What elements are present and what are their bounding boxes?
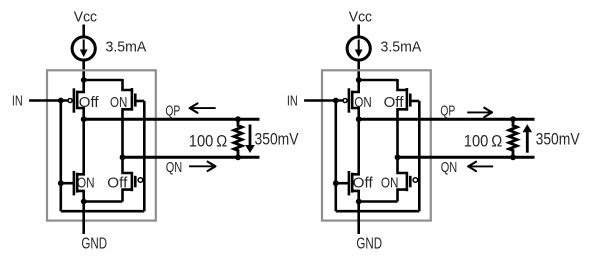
transistor M3 channel bar	[351, 173, 354, 193]
current source I1 3.5mA circle	[347, 37, 370, 60]
svg-text:QN: QN	[441, 159, 458, 176]
transistor M2 channel bar	[131, 88, 134, 111]
transistor M1 source lead to QP node	[352, 108, 359, 119]
resistor R bottom node dot	[235, 154, 241, 160]
current source arrow (down)	[358, 40, 360, 52]
gate rail wire (left gate line to right gate line)	[61, 210, 145, 213]
wire current source to node T	[357, 60, 360, 80]
node QN junction dot	[395, 154, 401, 160]
left gate vertical wire (IN to bottom gate rail)	[334, 101, 337, 212]
voltage arrow across resistor	[526, 130, 529, 152]
transistor M3 source lead to source rail	[77, 191, 84, 202]
QN current direction arrow	[469, 165, 493, 167]
transistor M4 gate bar	[134, 176, 137, 188]
transistor M3 drain lead (from QP node)	[352, 119, 359, 174]
node IN junction dot	[333, 98, 339, 104]
wire QN output line	[123, 156, 260, 159]
svg-text:100 Ω: 100 Ω	[464, 132, 503, 150]
svg-text:350mV: 350mV	[536, 130, 580, 148]
node T junction dot	[356, 77, 362, 83]
transistor M4 channel bar	[406, 172, 409, 191]
svg-text:Off: Off	[384, 95, 405, 111]
transistor M1 top-left "Off" gate bubble	[68, 99, 72, 103]
current source I1 3.5mA circle	[72, 37, 95, 60]
transistor M4 source lead to source rail	[123, 190, 132, 202]
transistor M3 bottom-left "ON" gate tap dot	[58, 180, 64, 186]
transistor M4 gate bubble	[413, 178, 418, 183]
transistor M4 bottom-right "Off" drain lead (from QN node)	[123, 157, 132, 173]
node GND tap junction dot	[81, 199, 87, 205]
top rail wire node T to right branch	[83, 79, 123, 82]
transistor M4 channel bar	[131, 172, 134, 191]
wire GND stub	[82, 202, 85, 235]
svg-text:IN: IN	[12, 93, 23, 110]
node QN junction dot	[120, 154, 126, 160]
transistor M2 gate bar	[409, 94, 412, 107]
gate rail wire (left gate line to right gate line)	[336, 210, 420, 213]
svg-text:QN: QN	[166, 159, 183, 176]
transistor M4 gate bar	[409, 176, 412, 188]
transistor M4 gate bubble	[138, 178, 143, 183]
svg-text:QP: QP	[440, 102, 455, 119]
wire IN lead	[29, 99, 67, 102]
right gate vertical wire (gates to bottom gate rail)	[418, 101, 421, 211]
wire QP output line	[84, 118, 260, 121]
resistor R 100 Ohm top node dot	[235, 116, 241, 122]
transistor M3 channel bar	[76, 173, 79, 193]
transistor M1 top-left "ON" gate bubble	[343, 99, 347, 103]
transistor M2 gate lead	[135, 100, 144, 103]
transistor M1 drain lead (from node T)	[352, 80, 359, 92]
svg-text:Vcc: Vcc	[74, 10, 98, 26]
svg-text:ON: ON	[77, 175, 95, 191]
wire IN lead	[304, 99, 342, 102]
transistor M2 gate lead	[410, 100, 419, 103]
transistor M4 bottom-right "ON" drain lead (from QN node)	[398, 157, 407, 173]
wire Vcc to current source	[357, 25, 360, 38]
wire GND stub	[357, 202, 360, 235]
svg-text:GND: GND	[81, 236, 107, 253]
transistor M4 source lead to source rail	[398, 190, 407, 202]
svg-text:3.5mA: 3.5mA	[381, 40, 422, 56]
svg-text:ON: ON	[354, 95, 371, 111]
current source arrow (down)	[83, 40, 85, 52]
svg-text:Off: Off	[353, 175, 374, 191]
svg-text:100 Ω: 100 Ω	[189, 132, 228, 150]
transistor M1 gate bar	[348, 88, 351, 112]
svg-text:Vcc: Vcc	[349, 10, 373, 26]
transistor M2 source lead crossing QP to QN node	[123, 109, 132, 157]
svg-text:ON: ON	[110, 95, 127, 111]
boundary box (driver IC)	[322, 70, 431, 220]
node QP junction dot	[356, 116, 362, 122]
svg-text:Off: Off	[79, 95, 100, 111]
resistor R 100 Ohm zigzag body	[509, 119, 517, 157]
transistor M1 channel bar	[351, 91, 354, 110]
svg-text:ON: ON	[381, 175, 399, 191]
transistor M1 drain lead (from node T)	[77, 80, 84, 92]
node QP junction dot	[81, 116, 87, 122]
wire current source to node T	[82, 60, 85, 80]
source rail wire (sources to GND tap)	[359, 200, 398, 203]
svg-text:Off: Off	[107, 175, 128, 191]
wire QN output line	[398, 156, 535, 159]
transistor M2 channel bar	[406, 88, 409, 111]
QN current direction arrow	[189, 165, 215, 167]
transistor M3 source lead to source rail	[352, 191, 359, 202]
left gate vertical wire (IN to bottom gate rail)	[59, 101, 62, 212]
resistor R bottom node dot	[510, 154, 516, 160]
transistor M2 top-right "ON" drain lead (from top rail)	[123, 79, 132, 90]
svg-text:350mV: 350mV	[255, 130, 299, 148]
svg-text:GND: GND	[356, 236, 382, 253]
transistor M2 top-right "Off" drain lead (from top rail)	[398, 79, 407, 90]
transistor M3 gate bar	[73, 171, 76, 195]
svg-text:QP: QP	[165, 102, 180, 119]
node IN junction dot	[58, 98, 64, 104]
resistor R 100 Ohm zigzag body	[234, 119, 242, 157]
top rail wire node T to right branch	[358, 79, 398, 82]
transistor M3 gate bar	[348, 171, 351, 195]
transistor M1 channel bar	[76, 91, 79, 110]
transistor M3 gate lead	[61, 182, 74, 185]
svg-text:3.5mA: 3.5mA	[106, 40, 147, 56]
wire Vcc to current source	[82, 25, 85, 38]
node GND tap junction dot	[356, 199, 362, 205]
resistor R 100 Ohm top node dot	[510, 116, 516, 122]
transistor M2 gate bar	[134, 94, 137, 107]
transistor M3 drain lead (from QP node)	[77, 119, 84, 174]
QP current direction arrow	[467, 111, 491, 113]
QP current direction arrow	[190, 107, 216, 109]
transistor M2 source lead crossing QP to QN node	[398, 109, 407, 157]
transistor M3 bottom-left "Off" gate tap dot	[333, 180, 339, 186]
node T junction dot	[81, 77, 87, 83]
transistor M3 gate lead	[336, 182, 349, 185]
right gate vertical wire (gates to bottom gate rail)	[143, 101, 146, 211]
svg-text:IN: IN	[287, 93, 298, 110]
boundary box (driver IC)	[47, 70, 156, 220]
voltage arrow across resistor	[249, 125, 252, 148]
wire QP output line	[359, 118, 535, 121]
transistor M1 gate bar	[73, 88, 76, 112]
source rail wire (sources to GND tap)	[84, 200, 123, 203]
transistor M1 source lead to QP node	[77, 108, 84, 119]
